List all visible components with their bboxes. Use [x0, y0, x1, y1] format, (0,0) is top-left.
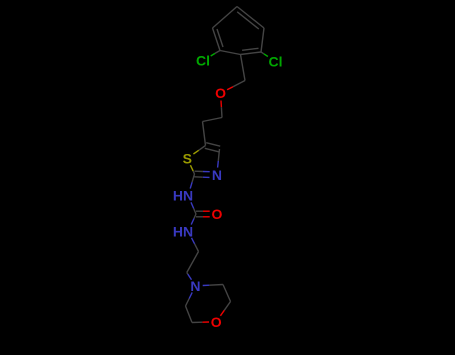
bond thiazole N3=C2 [194, 171, 209, 177]
bond C2-NH bond [190, 174, 194, 189]
svg-text:N: N [212, 167, 222, 183]
bond chain CH2-CH2 bond [187, 252, 199, 273]
bond benzyl CH2 bond [241, 55, 246, 81]
bond benzene C5-C6 [261, 28, 264, 52]
bond NH-CH2 bond [192, 238, 199, 252]
bond urea C=O [196, 211, 210, 217]
bond OCH2-CH2 bond [203, 118, 223, 122]
svg-text:Cl: Cl [196, 53, 210, 69]
svg-text:Cl: Cl [269, 53, 283, 69]
bond morpholine C-N west bond [186, 292, 193, 306]
bond morpholine west bond [186, 306, 193, 323]
bond benzene C1-C2 [220, 51, 241, 55]
bond NH-C(O) bond [191, 202, 196, 214]
bond morpholine O-C west bond [192, 321, 209, 324]
bond thiazole C5-S [193, 146, 205, 155]
bond morpholine N-C east bond [203, 285, 223, 286]
bond benzene C4=C5 [237, 7, 264, 30]
svg-text:O: O [215, 85, 226, 101]
svg-text:HN: HN [173, 188, 193, 204]
bond thiazole C2-S [190, 165, 194, 174]
bond C2-Cl bond [211, 51, 220, 57]
bond CH2-thiazole C5 bond [203, 122, 206, 146]
bond morpholine east bond [223, 285, 231, 302]
svg-text:HN: HN [173, 223, 193, 239]
bond benzene C2=C3 [213, 28, 224, 51]
bond CH2-N morpholine bond [187, 273, 192, 280]
svg-text:O: O [212, 206, 223, 222]
bond benzene C6=C1 [241, 48, 262, 54]
svg-text:N: N [190, 278, 200, 294]
bond CH2-O ether bond [227, 81, 245, 90]
bond thiazole C5=C4 [205, 143, 220, 152]
bond benzene C3-C4 [213, 7, 238, 29]
bond morpholine C-O east bond [220, 302, 230, 316]
bond thiazole C4-N3 [218, 149, 220, 168]
bond C6-Cl bond [261, 52, 268, 57]
bond C(O)-NH bond [191, 214, 196, 225]
svg-text:S: S [183, 150, 192, 166]
svg-text:O: O [211, 314, 222, 330]
bond O-CH2 bond [221, 101, 222, 118]
